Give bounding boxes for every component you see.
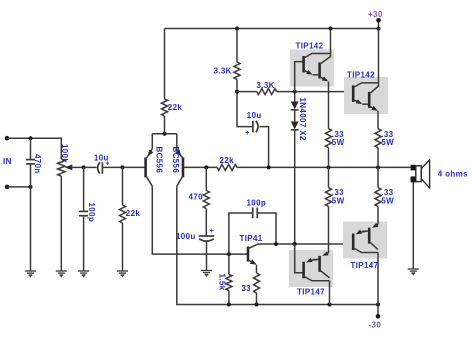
node 22k shunt	[121, 165, 125, 169]
svg-text:100k: 100k	[60, 144, 69, 163]
resistor 22k feedback	[217, 164, 237, 170]
svg-text:5W: 5W	[332, 138, 345, 147]
node top rail right	[377, 27, 381, 31]
svg-text:470: 470	[189, 192, 204, 201]
resistor .33 bottom-left	[326, 167, 332, 206]
resistor .33 top-right	[375, 129, 381, 168]
svg-text:-30: -30	[369, 320, 382, 329]
label BC556 right	[171, 147, 180, 174]
svg-text:IN: IN	[3, 157, 12, 166]
ground 100p	[78, 271, 89, 278]
label 1N4007 X2	[298, 98, 307, 141]
wire base node to TIP142-2	[295, 91, 353, 93]
capacitor 470n	[26, 138, 35, 187]
label IN	[3, 157, 12, 166]
resistor .33 top-left	[326, 129, 332, 168]
svg-text:100p: 100p	[87, 203, 96, 223]
label .33 5W bottom-left	[332, 188, 345, 205]
svg-text:+: +	[210, 228, 214, 235]
node neg TIP147-1	[328, 303, 332, 307]
wire input bottom	[7, 185, 33, 189]
input terminal top	[5, 136, 10, 141]
svg-text:1N4007 X2: 1N4007 X2	[298, 98, 307, 141]
wire TIP147-1 emitter	[328, 207, 330, 253]
svg-text:100u: 100u	[176, 232, 196, 241]
resistor 470	[203, 167, 209, 235]
transistor Q2 BC556 right	[177, 149, 183, 187]
label TIP41	[240, 234, 263, 243]
svg-text:TIP147: TIP147	[351, 261, 379, 270]
svg-text:5W: 5W	[332, 196, 345, 205]
wire pot to ground	[60, 176, 62, 271]
ground speaker	[408, 269, 419, 276]
label 1.5k	[218, 274, 227, 291]
svg-text:5W: 5W	[381, 138, 394, 147]
capacitor 10u input	[98, 162, 123, 174]
svg-text:1.5k: 1.5k	[218, 274, 227, 291]
wire node to 10u	[84, 166, 97, 168]
label 100u	[176, 228, 214, 241]
svg-text:+: +	[106, 160, 110, 167]
label 10u bootstrap	[245, 111, 261, 137]
node output right pair	[376, 165, 380, 169]
svg-text:10u: 10u	[247, 111, 262, 120]
resistor 3.3K vertical	[234, 29, 240, 92]
pot wiper arrow	[65, 164, 84, 170]
svg-text:100p: 100p	[247, 198, 267, 207]
ground input	[25, 271, 36, 278]
diode D2 1N4007	[291, 110, 299, 244]
label TIP142 first	[296, 42, 324, 51]
wire node to BC556 base	[123, 166, 145, 168]
label 470n	[33, 154, 42, 174]
node neg 1.5k	[227, 303, 231, 307]
capacitor 100p miller	[229, 208, 276, 255]
potentiometer 100k	[58, 159, 65, 176]
label 10u input	[94, 153, 110, 167]
svg-text:470n: 470n	[33, 154, 42, 174]
wire TIP147-2 emitter	[377, 207, 379, 225]
svg-text:22k: 22k	[220, 156, 235, 165]
resistor 33	[254, 265, 260, 305]
power terminal +30	[376, 18, 381, 29]
node 470 tap	[204, 165, 208, 169]
svg-text:TIP147: TIP147	[297, 288, 325, 297]
svg-text:+30: +30	[368, 10, 383, 19]
capacitor 10u bootstrap	[237, 92, 269, 168]
wire Q2 collector to neg rail	[177, 186, 378, 304]
label 3.3K horizontal	[257, 81, 275, 90]
wire top rail	[165, 28, 379, 30]
diode D1 1N4007	[291, 92, 299, 110]
transistor TIP142 first	[295, 29, 331, 92]
label .33 5W top-left	[332, 130, 345, 147]
label +30	[368, 10, 383, 19]
label 4 ohms	[438, 169, 468, 178]
label .33 5W top-right	[381, 130, 394, 147]
label TIP147 second	[351, 261, 379, 270]
wire right base	[184, 166, 217, 168]
label BC556 left	[155, 147, 164, 174]
node input junction	[82, 165, 86, 169]
label 3.3K vertical	[214, 67, 232, 76]
capacitor 100u	[199, 236, 215, 271]
label TIP142 second	[347, 71, 375, 80]
label 22k tail	[168, 103, 183, 112]
svg-text:22k: 22k	[168, 103, 183, 112]
ground 100u	[201, 271, 212, 278]
wire TIP142-2 emitter	[377, 111, 379, 129]
wire speaker to ground	[412, 182, 414, 269]
svg-text:+: +	[245, 130, 249, 137]
ground 22k	[117, 271, 128, 278]
svg-text:TIP142: TIP142	[296, 42, 324, 51]
transistor Q1 BC556 left	[146, 149, 153, 187]
node neg right corner	[376, 303, 380, 307]
resistor .33 bottom-right	[375, 167, 381, 206]
svg-text:3.3K: 3.3K	[214, 67, 232, 76]
node top rail TIP142-1	[329, 27, 333, 31]
input terminal bottom	[5, 185, 10, 190]
label 100p miller	[247, 198, 267, 207]
transistor TIP147 first	[295, 244, 330, 305]
label -30	[369, 320, 382, 329]
svg-text:TIP142: TIP142	[347, 71, 375, 80]
svg-text:5W: 5W	[381, 196, 394, 205]
wire Q1 collector to VAS base	[152, 186, 247, 254]
label 100k	[60, 144, 69, 163]
label 100p input	[87, 203, 96, 223]
speaker 4 ohms	[411, 160, 430, 188]
transistor TIP142 second	[353, 29, 378, 111]
svg-text:3.3K: 3.3K	[257, 81, 275, 90]
node neg 33	[255, 303, 259, 307]
power terminal -30	[376, 305, 381, 319]
label TIP147 first	[297, 288, 325, 297]
node VAS base	[227, 252, 231, 256]
resistor 3.3K horizontal	[237, 89, 295, 95]
wire output rail	[237, 166, 411, 168]
node 100p collector	[274, 242, 278, 246]
label 22k input shunt	[126, 209, 141, 218]
resistor 1.5k	[226, 254, 232, 304]
node 10u bootstrap out	[267, 165, 271, 169]
transistor TIP147 second	[353, 223, 378, 305]
svg-text:TIP41: TIP41	[240, 234, 263, 243]
shade box TIP147-2	[343, 222, 387, 259]
wire emitters joiner	[152, 132, 177, 149]
transistor Q3 TIP41	[248, 244, 258, 264]
arrow TIP41 emitter	[250, 259, 257, 264]
label 22k feedback	[220, 156, 235, 165]
wire input top	[7, 136, 61, 140]
node output left pair	[327, 165, 331, 169]
capacitor 100p input	[79, 167, 88, 271]
shade box TIP142-1	[290, 50, 334, 87]
wire TIP142-1 emitter	[328, 82, 330, 129]
svg-text:4 ohms: 4 ohms	[438, 169, 468, 178]
node top rail 3.3K	[235, 27, 239, 31]
node NPN base	[293, 90, 297, 94]
wire input bottom to ground	[30, 187, 32, 271]
label 470	[189, 192, 204, 201]
label .33 5W bottom-right	[381, 188, 394, 205]
svg-text:BC556: BC556	[155, 147, 164, 174]
node bootstrap A	[235, 90, 239, 94]
wire to pot	[60, 137, 62, 159]
label 33	[242, 284, 252, 293]
wire VAS collector	[258, 243, 353, 245]
svg-text:22k: 22k	[126, 209, 141, 218]
shade box TIP142-2	[344, 77, 388, 114]
ground pot	[56, 271, 67, 278]
resistor 22k tail	[162, 29, 168, 134]
svg-text:BC556: BC556	[171, 147, 180, 174]
shade box TIP147-1	[289, 250, 333, 287]
arrow Q2 emitter	[175, 150, 181, 157]
svg-text:33: 33	[242, 284, 252, 293]
arrow Q1 emitter	[148, 150, 154, 157]
node PNP base	[293, 242, 297, 246]
resistor 22k input shunt	[120, 167, 126, 271]
